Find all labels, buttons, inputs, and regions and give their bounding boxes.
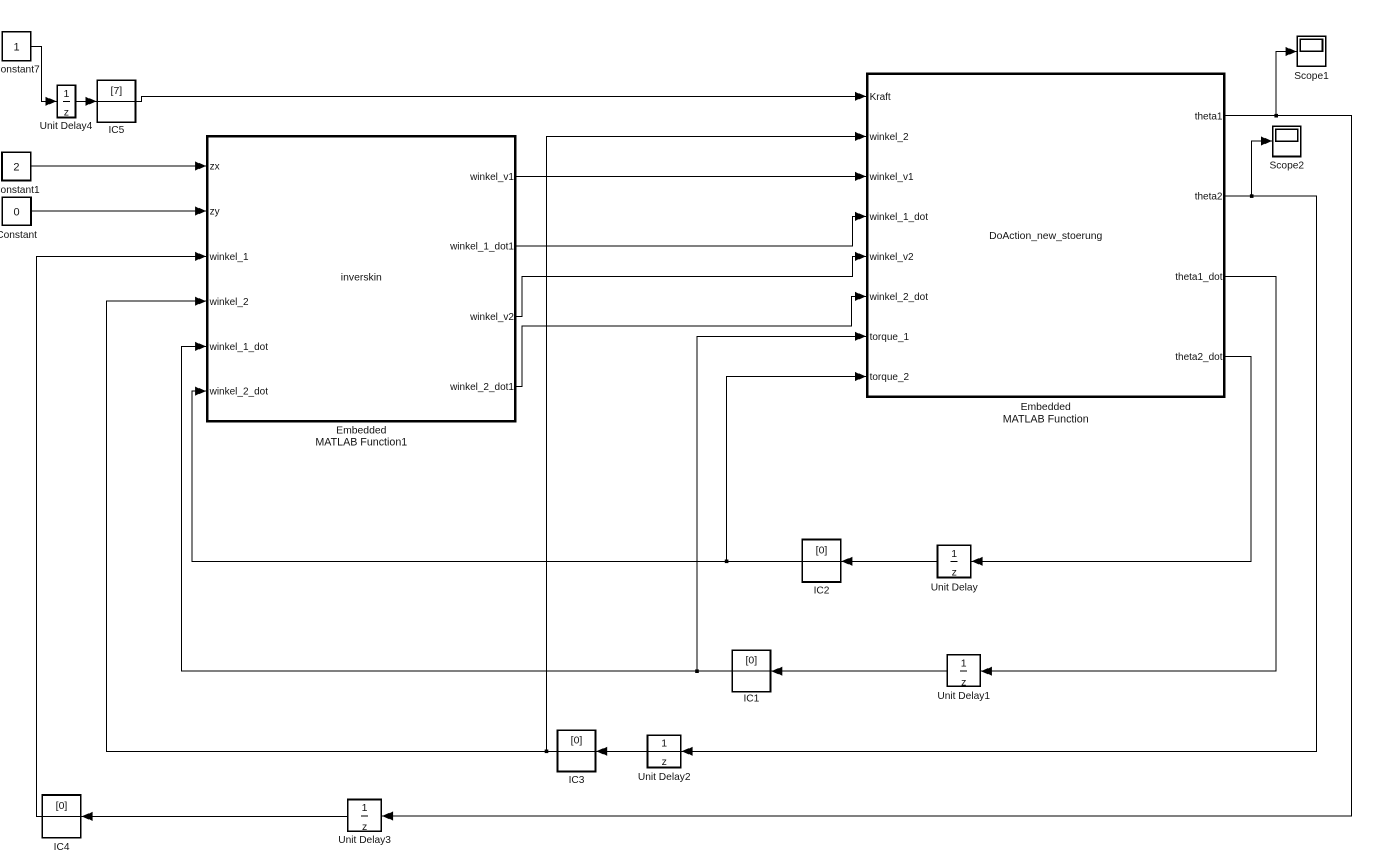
junction IC3/winkel_2 (545, 750, 549, 754)
svg-text:Embedded: Embedded (336, 426, 386, 437)
wire winkel_v2 to winkel_v2 (517, 256, 866, 316)
wire Unit Delay to IC2 (842, 560, 937, 562)
svg-text:theta2: theta2 (1195, 192, 1223, 203)
IC block IC1 value [0] (731, 650, 771, 704)
svg-text:MATLAB Function1: MATLAB Function1 (315, 436, 407, 448)
svg-text:winkel_v2: winkel_v2 (869, 252, 914, 263)
unit delay block Unit Delay2 (638, 735, 691, 782)
svg-text:IC2: IC2 (814, 586, 830, 597)
wire winkel_v1 to winkel_v1 (517, 175, 866, 177)
svg-text:winkel_1_dot1: winkel_1_dot1 (449, 242, 514, 253)
svg-text:[7]: [7] (111, 85, 123, 97)
svg-text:Constant1: Constant1 (0, 185, 40, 196)
wire IC2 to winkel_2_dot (left block) (192, 391, 802, 561)
svg-text:theta2_dot: theta2_dot (1175, 352, 1222, 363)
scope block Scope2 (1270, 126, 1305, 171)
svg-text:zx: zx (210, 162, 220, 173)
svg-text:[0]: [0] (745, 655, 757, 667)
svg-text:winkel_v1: winkel_v1 (469, 172, 514, 183)
svg-text:Constant7: Constant7 (0, 65, 40, 76)
IC block IC2 value [0] (802, 540, 842, 597)
svg-text:Constant: Constant (0, 230, 37, 241)
wire IC1 to winkel_1_dot (left block) (181, 346, 731, 671)
junction IC2/torque_2 (725, 560, 729, 564)
IC block IC3 value [0] (557, 730, 597, 786)
svg-text:z: z (64, 107, 69, 119)
wire theta2_dot to Unit Delay (972, 356, 1251, 561)
scope block Scope1 (1294, 36, 1329, 82)
svg-text:torque_1: torque_1 (870, 332, 910, 343)
svg-text:winkel_2_dot: winkel_2_dot (869, 292, 929, 303)
svg-text:Unit Delay2: Unit Delay2 (638, 772, 691, 783)
wire IC1 branch to torque_1 (697, 336, 866, 671)
svg-text:Kraft: Kraft (870, 92, 891, 103)
svg-text:theta1: theta1 (1195, 111, 1223, 122)
subsystem block Embedded MATLAB Function1 (inverskin) (207, 136, 515, 448)
constant block Constant value 0 (0, 197, 37, 240)
svg-text:1: 1 (13, 42, 19, 54)
wire Constant to zy (32, 210, 206, 212)
svg-text:Scope1: Scope1 (1294, 71, 1329, 82)
svg-text:MATLAB Function: MATLAB Function (1003, 413, 1089, 425)
svg-text:winkel_v2: winkel_v2 (469, 312, 514, 323)
svg-text:theta1_dot: theta1_dot (1175, 272, 1222, 283)
wire winkel_1_dot1 to winkel_1_dot (517, 216, 866, 246)
svg-text:2: 2 (13, 161, 19, 173)
svg-text:Unit Delay3: Unit Delay3 (338, 835, 391, 846)
subsystem block Embedded MATLAB Function (DoAction_new_stoerung) (867, 74, 1224, 425)
unit delay block Unit Delay4 (40, 85, 93, 132)
svg-text:z: z (362, 821, 367, 833)
wire Unit Delay1 to IC1 (771, 670, 946, 672)
svg-text:Embedded: Embedded (1021, 402, 1071, 413)
wire IC5 to Kraft (136, 96, 866, 101)
wire winkel_2_dot1 to winkel_2_dot (517, 296, 866, 386)
wire Constant7 to Unit Delay4 (32, 47, 57, 102)
junction IC1/torque_1 (695, 669, 699, 673)
svg-text:winkel_1: winkel_1 (209, 252, 249, 263)
svg-text:z: z (961, 677, 966, 689)
svg-text:torque_2: torque_2 (870, 372, 910, 383)
svg-text:Unit Delay1: Unit Delay1 (937, 691, 990, 702)
wire Unit Delay3 to IC4 (82, 815, 347, 817)
svg-text:1: 1 (661, 737, 667, 749)
unit delay block Unit Delay1 (937, 655, 990, 702)
svg-text:DoAction_new_stoerung: DoAction_new_stoerung (989, 231, 1102, 242)
wire Unit Delay2 to IC3 (596, 750, 646, 752)
wire IC3 branch to winkel_2 (right block) (547, 136, 866, 751)
svg-text:winkel_1_dot: winkel_1_dot (209, 342, 269, 353)
wire theta1_dot to Unit Delay1 (981, 276, 1276, 671)
svg-text:1: 1 (362, 802, 368, 814)
wire IC4 to winkel_1 (left block) (36, 256, 206, 816)
svg-text:1: 1 (951, 548, 957, 560)
svg-text:winkel_1_dot: winkel_1_dot (869, 212, 929, 223)
svg-text:winkel_2: winkel_2 (209, 297, 249, 308)
svg-text:[0]: [0] (816, 545, 828, 557)
svg-text:z: z (952, 567, 957, 579)
svg-text:IC4: IC4 (54, 842, 70, 853)
junction theta2/Scope2 (1250, 194, 1254, 198)
unit delay block Unit Delay3 (338, 799, 391, 846)
wire theta1 to Unit Delay3 (382, 116, 1351, 816)
svg-text:winkel_2: winkel_2 (869, 132, 909, 143)
svg-text:[0]: [0] (56, 800, 68, 812)
unit delay block Unit Delay (931, 545, 979, 593)
IC block IC4 value [0] (41, 795, 81, 853)
svg-text:z: z (662, 756, 667, 768)
wire theta1 branch to Scope1 (1276, 52, 1296, 116)
svg-text:1: 1 (961, 658, 967, 670)
junction theta1/Scope1 (1274, 114, 1278, 118)
wire theta2 to Unit Delay2 (682, 196, 1317, 751)
svg-text:IC5: IC5 (108, 125, 124, 136)
svg-text:Unit Delay: Unit Delay (931, 582, 979, 593)
svg-text:winkel_2_dot1: winkel_2_dot1 (449, 382, 514, 393)
wire IC3 to winkel_2 (left block) (107, 301, 557, 751)
constant block Constant7 value 1 (0, 32, 40, 76)
wire Constant1 to zx (32, 165, 206, 167)
svg-text:1: 1 (63, 88, 69, 100)
wire theta2 branch to Scope2 (1252, 141, 1272, 196)
svg-text:winkel_2_dot: winkel_2_dot (209, 387, 269, 398)
svg-text:Unit Delay4: Unit Delay4 (40, 121, 93, 132)
wire Unit Delay4 to IC5 (76, 100, 96, 102)
svg-text:[0]: [0] (571, 735, 583, 747)
wire IC2 branch to torque_2 (727, 377, 866, 562)
svg-text:IC1: IC1 (743, 694, 759, 705)
svg-text:winkel_v1: winkel_v1 (869, 172, 914, 183)
svg-text:zy: zy (210, 207, 220, 218)
svg-text:Scope2: Scope2 (1270, 160, 1305, 171)
svg-text:0: 0 (14, 206, 20, 218)
svg-text:IC3: IC3 (569, 775, 585, 786)
IC block IC5 value [7] (96, 80, 136, 136)
svg-text:inverskin: inverskin (341, 273, 382, 284)
constant block Constant1 value 2 (0, 152, 40, 196)
